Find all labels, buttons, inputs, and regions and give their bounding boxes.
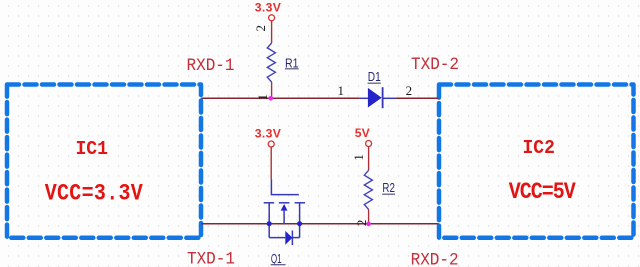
resistor R2 [364, 170, 395, 209]
power port 3.3V (for Q1 gate) [255, 126, 282, 147]
svg-text:5V: 5V [355, 126, 371, 140]
svg-text:R2: R2 [382, 181, 395, 195]
transistor Q1 [264, 179, 305, 245]
svg-text:VCC=5V: VCC=5V [509, 180, 576, 206]
svg-text:1: 1 [351, 154, 366, 161]
wire top RXD net [201, 97, 438, 99]
Q1 drain junction dot [297, 221, 302, 226]
svg-text:D1: D1 [368, 70, 381, 84]
IC1 box [7, 85, 201, 238]
wire 3.3V to Q1 gate [270, 147, 272, 179]
svg-text:VCC=3.3V: VCC=3.3V [45, 182, 143, 208]
power port 3.3V top (for R1) [255, 1, 282, 21]
Q1 label [271, 252, 286, 266]
power port 5V [355, 126, 372, 146]
wire R2 bottom pin [368, 209, 370, 223]
svg-text:IC2: IC2 [523, 136, 555, 159]
wire 3.3V to R1 [271, 21, 273, 43]
resistor R1 [267, 43, 298, 82]
svg-text:2: 2 [406, 83, 413, 98]
diode D1 [360, 70, 396, 108]
svg-text:TXD-1: TXD-1 [187, 250, 235, 267]
svg-text:IC1: IC1 [76, 137, 108, 160]
svg-text:2: 2 [253, 25, 268, 32]
wire 5V to R2 [368, 147, 370, 171]
svg-text:RXD-2: RXD-2 [411, 251, 459, 267]
svg-text:1: 1 [337, 83, 344, 98]
IC2 box [439, 85, 634, 238]
svg-text:3.3V: 3.3V [255, 1, 282, 15]
svg-text:RXD-1: RXD-1 [187, 55, 235, 75]
junction node RXD-2/R2 [366, 222, 371, 227]
wire bottom TXD net [201, 223, 438, 225]
Q1 source junction dot [267, 221, 272, 226]
junction node RXD-1/R1 [269, 96, 274, 101]
svg-text:3.3V: 3.3V [255, 126, 282, 140]
svg-text:TXD-2: TXD-2 [411, 54, 459, 74]
svg-text:Q1: Q1 [271, 252, 282, 266]
wire R1 bottom pin [271, 82, 273, 98]
svg-text:1: 1 [255, 94, 270, 101]
